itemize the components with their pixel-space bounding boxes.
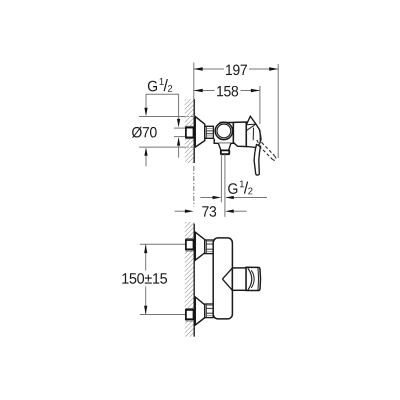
extension line 158 right <box>259 86 261 124</box>
supply union square upper view <box>186 126 193 138</box>
wall hatch lower view <box>185 222 194 337</box>
dimension 158 <box>194 86 260 97</box>
phantom lever dashed <box>257 137 276 160</box>
outlet cone below body <box>218 143 231 150</box>
union nut upper view <box>205 126 214 138</box>
outlet tube <box>232 268 246 290</box>
arrow down at escutcheon line <box>144 108 147 117</box>
wall hatch upper view <box>185 99 194 163</box>
hose pipe down <box>220 154 222 202</box>
diverter block <box>233 122 246 147</box>
escutcheon cone upper view <box>195 117 205 148</box>
hose collar <box>221 150 230 154</box>
outlet triangle into body <box>222 268 232 290</box>
arrow up at supply pipe + stub <box>177 137 180 146</box>
outlet end cap <box>246 267 260 290</box>
arrow up at escutcheon bottom line + stub <box>144 147 147 156</box>
supply pipe stub in wall <box>174 127 186 129</box>
dimension 197 <box>194 65 279 76</box>
leader arrows G1/2 bottom <box>200 196 267 199</box>
dimension 150±15 <box>122 244 185 314</box>
lever handle solid <box>254 145 260 176</box>
arrow down at supply pipe <box>177 119 180 128</box>
cartridge cap circle <box>215 122 232 139</box>
label G 1/2 top <box>148 78 172 92</box>
mixer body upper view <box>214 123 233 144</box>
Ø70 extension bottom line <box>139 146 181 148</box>
leader bracket G1/2 top <box>146 94 179 119</box>
supply union square lower top <box>186 239 193 251</box>
handle dome faceted <box>246 116 261 147</box>
extension line 197 right <box>277 64 279 158</box>
escutcheon cone lower bottom <box>195 297 205 325</box>
escutcheon cone lower top <box>195 232 205 260</box>
supply union square lower bottom <box>186 309 193 321</box>
mixer body lower view <box>213 238 232 319</box>
label Ø70 <box>132 127 157 138</box>
union nut lower top <box>205 240 213 254</box>
union nut lower bottom <box>205 304 213 318</box>
dimension 73 <box>175 166 247 217</box>
Ø70 extension top line <box>139 116 181 118</box>
label G 1/2 bottom <box>228 180 252 194</box>
extension line left (wall face datum, above wall) <box>193 63 195 100</box>
